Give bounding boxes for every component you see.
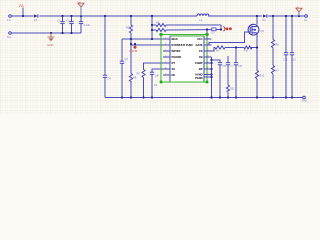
capacitor C3 [79,22,83,24]
wire: output cap C11 column [285,16,287,98]
capacitor C6 (SS) [150,72,154,74]
svg-text:0.1uF: 0.1uF [84,23,91,27]
U1 pin numbers [165,38,209,76]
wire: VCC stub at IC [206,30,208,35]
svg-text:PWM: PWM [130,49,138,53]
wire: R3 row upper [152,25,221,30]
U1 left pin stubs [163,39,170,75]
resistor R6 (FB upper) [271,40,274,49]
wire: BYP row [131,44,170,46]
wire: output cap C12 column [291,16,293,98]
svg-text:BIAS: BIAS [172,37,178,41]
U1 pin names [172,37,194,77]
connector pin P3 (Vout) [304,15,308,18]
wire: gate drive run [204,32,250,45]
green net segment over U1 bottom edge [161,81,207,83]
svg-text:R8: R8 [133,76,137,80]
node dot green right [206,33,209,36]
wire: C5 column [121,39,123,98]
wire: top rail after inductor L1 [208,15,262,17]
svg-text:C5: C5 [125,57,129,61]
neon lamp NE1 (red) [223,26,225,31]
power port VCC1 [78,1,85,16]
wire: Q1 source / sense column [256,35,258,98]
svg-text:RT: RT [172,61,176,65]
transistor Q1 [248,24,259,35]
wire: C1 leads [62,16,64,33]
power port Vout [296,6,303,16]
svg-text:VCC: VCC [197,37,203,41]
wire: CS sense run [204,48,257,52]
wire: Q1 drain [256,16,258,25]
connector pin P4 (gnd) [302,96,306,99]
sheet border [12,8,305,98]
svg-text:R12: R12 [260,74,265,78]
connector pin P1 (line) [9,15,13,18]
wire: AC line input top [12,15,34,17]
svg-text:C4: C4 [108,77,112,81]
svg-text:C9: C9 [223,64,227,68]
wire: C2 leads [71,16,73,33]
svg-text:R2: R2 [126,26,130,30]
wire: ground rail bottom [105,97,304,99]
capacitor C2 [69,22,73,24]
sheet background [0,0,320,115]
svg-text:BYP/MULTI-FUNC: BYP/MULTI-FUNC [172,43,194,47]
capacitor C1 [60,22,64,24]
wire: neutral input bottom [12,32,81,34]
resistor R4 [156,28,166,31]
svg-text:GND: GND [47,43,53,47]
wire: BIAS row [122,38,170,40]
capacitor C5 [120,61,124,63]
wire: RT row [144,63,171,98]
svg-text:PGOOD: PGOOD [172,55,182,59]
connector pin P2 (neutral) [9,32,13,35]
ground [47,33,54,47]
wire: VCC feed column [151,16,153,39]
svg-text:C11: C11 [283,58,288,62]
wire: FB divider column [272,16,274,98]
wire: input bulk column C4 [104,16,106,98]
svg-text:INTOFF: INTOFF [172,49,182,53]
svg-text:R5: R5 [137,72,141,76]
svg-text:U1: U1 [154,83,158,87]
wire: COMP net [212,60,221,98]
capacitor C4 [103,75,107,77]
svg-text:1uF: 1uF [155,74,160,78]
svg-text:PGND: PGND [195,76,203,80]
test point PWM (red) [134,46,137,49]
svg-text:NC: NC [172,73,176,77]
node square green right [206,81,209,84]
capacitor C7 [226,63,230,65]
wire: output rail after diode D2 [268,15,305,17]
wire: C8 column [235,47,237,98]
svg-text:R7: R7 [276,69,280,73]
green net highlight around U1 [161,35,207,83]
inductor L1 [197,14,209,16]
resistor R8 [129,74,132,82]
capacitor C11 [284,53,288,55]
capacitor C12 [290,53,294,55]
svg-text:R3: R3 [156,21,160,25]
wire: C7 column [227,56,229,98]
svg-text:L-in: L-in [7,19,12,22]
resistor R5 (RT) [142,70,145,78]
wire: top rail after diode D1 [40,15,198,17]
svg-text:C8: C8 [239,64,243,68]
diode D1 [34,14,38,21]
svg-text:2A: 2A [19,3,24,8]
wire: AGND column [211,57,213,98]
svg-text:GND: GND [302,100,308,103]
svg-text:C1: C1 [57,19,61,23]
node square green left [160,81,163,84]
resistor R12 (sense) [255,71,258,80]
svg-text:C2: C2 [66,19,70,23]
U1 right pin stubs [204,39,212,77]
svg-text:N-in: N-in [7,36,12,39]
wire: SS row [152,69,170,98]
wire: divider column R2/R8 [130,16,132,98]
zener D3 [212,28,217,35]
svg-text:CS: CS [199,49,203,53]
resistor R2 [129,25,132,33]
svg-text:C12: C12 [291,58,296,62]
svg-text:FB: FB [199,55,203,59]
capacitor C8 [234,63,238,65]
resistor R3 [156,23,166,26]
svg-text:GATE: GATE [196,43,203,47]
node dot green left [160,33,163,36]
resistor R11 [226,85,229,91]
diode D2 [263,14,267,21]
IC U1 PWM controller [154,36,212,87]
svg-text:SS: SS [172,67,176,71]
resistor R7 (FB lower) [271,66,274,75]
wire: C3 leads [80,16,82,33]
svg-text:R6: R6 [276,43,280,47]
svg-text:COMP: COMP [195,61,203,65]
wire: fuse label stub [22,8,24,17]
svg-text:BP: BP [199,67,203,71]
capacitor C9 [218,63,222,65]
wire: R4 row lower [152,29,221,32]
svg-text:Q1: Q1 [261,29,265,33]
svg-text:R11: R11 [230,87,235,91]
